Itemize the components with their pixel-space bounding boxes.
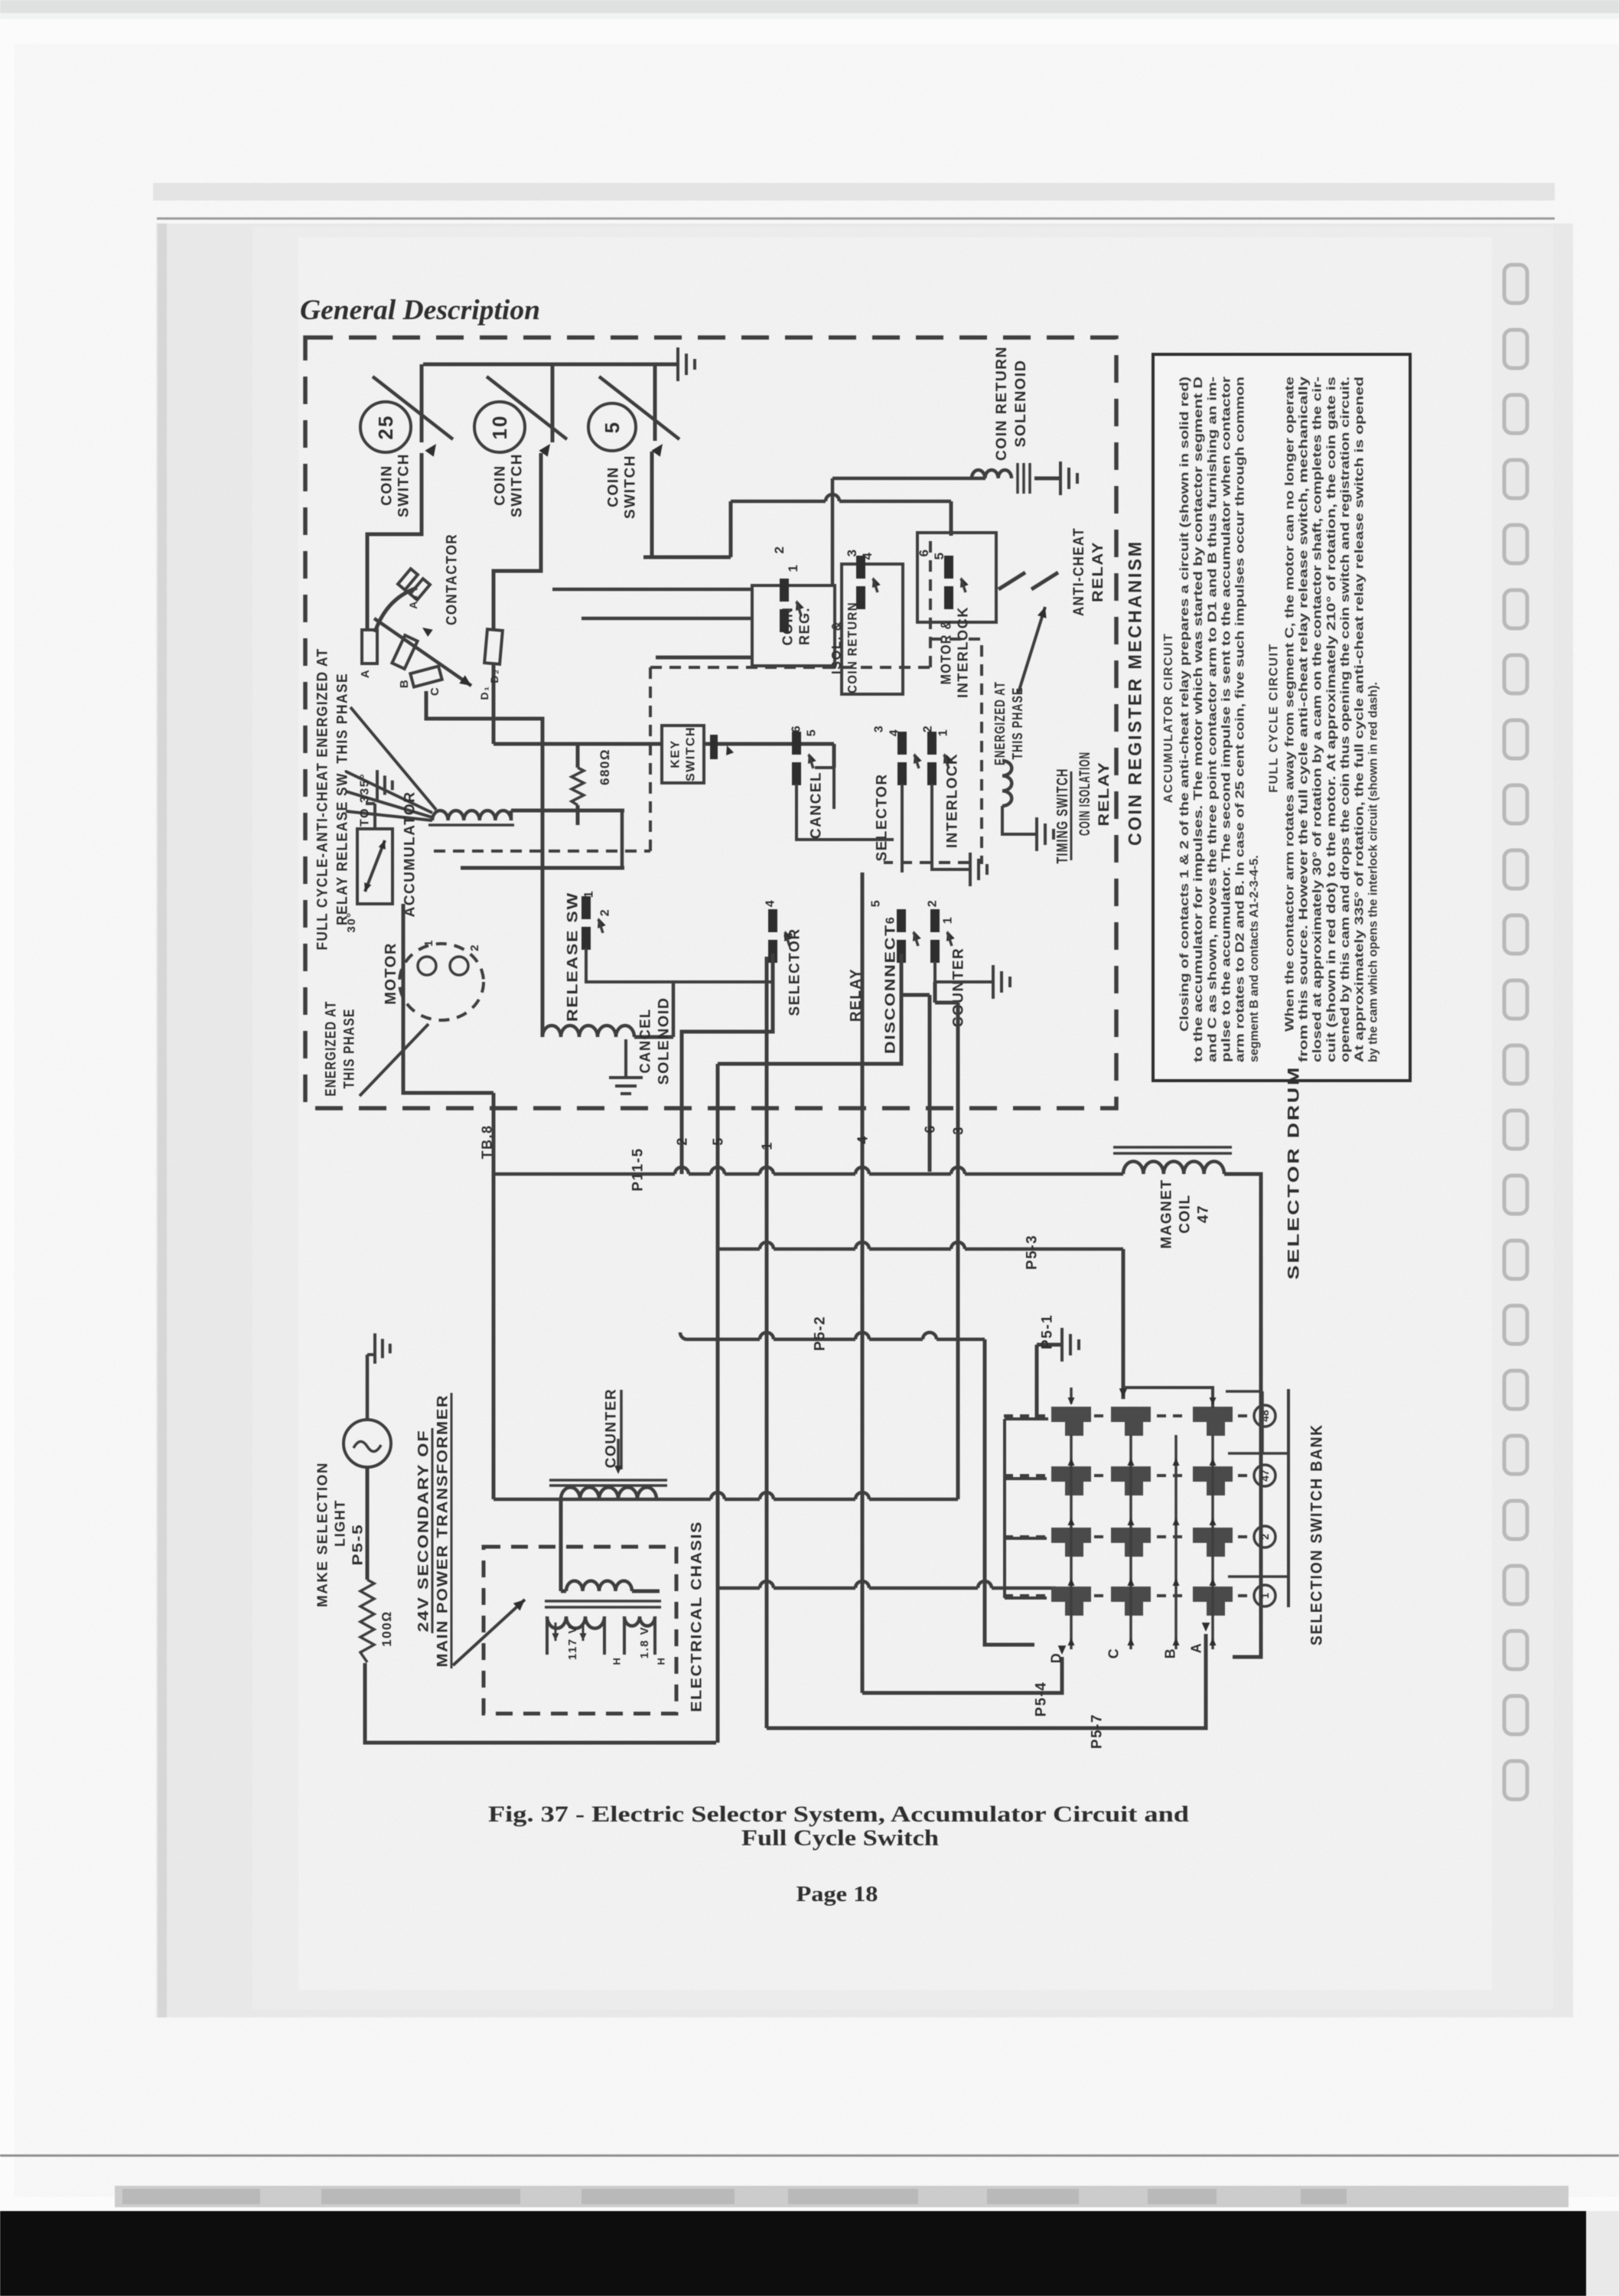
svg-text:opened by this cam and drops t: opened by this cam and drops the coin th… <box>1339 377 1352 1062</box>
svg-text:pulse to the accumulator. The: pulse to the accumulator. The second imp… <box>1220 377 1233 1062</box>
svg-text:and C as shown, moves the thre: and C as shown, moves the three point co… <box>1206 377 1219 1062</box>
svg-text:to the accumulator for impulse: to the accumulator for impulses. The mot… <box>1192 377 1205 1062</box>
svg-text:FULL CYCLE CIRCUIT: FULL CYCLE CIRCUIT <box>1267 643 1280 793</box>
svg-text:segment B and contacts A1-2-3-: segment B and contacts A1-2-3-4-5. <box>1248 855 1261 1062</box>
svg-text:When the contactor arm rotates: When the contactor arm rotates away from… <box>1283 377 1296 1032</box>
svg-text:cuit (shown in red dot) to the: cuit (shown in red dot) to the motor. At… <box>1325 377 1338 1062</box>
svg-text:by the cam which opens the int: by the cam which opens the interlock cir… <box>1367 682 1380 1062</box>
svg-text:from this source. However the: from this source. However the full cycle… <box>1298 377 1311 1062</box>
svg-text:Closing of contacts 1 & 2 of t: Closing of contacts 1 & 2 of the anti-ch… <box>1178 377 1191 1032</box>
svg-text:At approximately 335° of rotat: At approximately 335° of rotation, the f… <box>1353 377 1366 1062</box>
svg-text:closed at approximately 30° of: closed at approximately 30° of rotation … <box>1311 377 1324 1062</box>
svg-text:ACCUMULATOR CIRCUIT: ACCUMULATOR CIRCUIT <box>1162 633 1175 804</box>
svg-text:arm rotates to D2 and B. In c: arm rotates to D2 and B. In case of 25 c… <box>1234 377 1247 1062</box>
